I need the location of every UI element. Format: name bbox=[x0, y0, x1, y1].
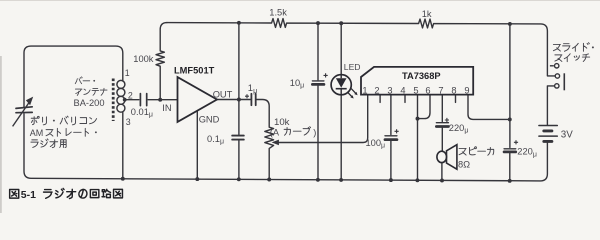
wire antenna loop top bbox=[24, 46, 123, 107]
svg-text:8: 8 bbox=[451, 86, 456, 96]
label speaker bbox=[459, 148, 466, 155]
wire pot wiper to pin1 bbox=[279, 95, 368, 143]
svg-text:4: 4 bbox=[400, 86, 405, 96]
op-amp LMF501T triangle bbox=[178, 77, 218, 122]
label poly varicon bbox=[31, 116, 39, 124]
wire coil bottom to rail bbox=[122, 112, 124, 179]
slide switch bbox=[550, 64, 564, 91]
svg-text:IN: IN bbox=[162, 103, 171, 113]
wire OUT bbox=[217, 99, 250, 101]
label ba- (bar) bbox=[75, 77, 82, 84]
wire pin8 stub bbox=[455, 95, 457, 103]
capacitor 100u plates bbox=[385, 135, 397, 137]
capacitor 10u plates bbox=[312, 80, 324, 82]
wire 100u line bbox=[390, 95, 392, 180]
svg-text:5-1: 5-1 bbox=[21, 189, 36, 201]
wire LED line bbox=[340, 23, 342, 180]
wire pin2 stub bbox=[379, 95, 381, 103]
wire pin6 curve bbox=[418, 95, 431, 119]
coil tap numbers bbox=[125, 68, 133, 127]
wire pin7 through 220u to speaker bbox=[441, 95, 443, 181]
wire loop left lower + ground rail + riser to battery bbox=[24, 114, 547, 181]
IC TA7368P box bbox=[361, 67, 473, 95]
svg-text:GND: GND bbox=[199, 114, 220, 124]
svg-text:1.5k: 1.5k bbox=[269, 7, 287, 17]
varicon arrow bbox=[13, 102, 30, 127]
label slide switch bbox=[553, 44, 560, 51]
svg-text:): ) bbox=[313, 128, 316, 138]
label AM straight bbox=[46, 130, 53, 136]
speaker cone bbox=[447, 145, 457, 170]
nakaguro dots bbox=[53, 46, 594, 133]
inductor bar-antenna coil bbox=[117, 80, 125, 112]
ferrite core dashed bbox=[112, 79, 115, 122]
pot wiper arrowhead bbox=[272, 140, 279, 146]
varicon plates bbox=[16, 107, 32, 113]
wire IN bbox=[148, 99, 177, 101]
svg-text:100k: 100k bbox=[133, 54, 154, 64]
svg-text:3: 3 bbox=[126, 117, 131, 127]
svg-text:9: 9 bbox=[464, 86, 469, 96]
battery 3V plates bbox=[539, 126, 557, 137]
wire pin4 stub bbox=[404, 95, 406, 103]
svg-text:2: 2 bbox=[128, 91, 133, 101]
caption kanji bold bbox=[10, 188, 123, 198]
svg-text:5: 5 bbox=[413, 86, 418, 96]
svg-text:LED: LED bbox=[344, 62, 361, 72]
capacitor 1u plates bbox=[251, 94, 255, 105]
svg-text:8Ω: 8Ω bbox=[458, 159, 470, 169]
svg-text:1: 1 bbox=[362, 86, 367, 96]
wire GND drop bbox=[196, 111, 198, 179]
plus signs bbox=[245, 73, 518, 144]
label radio-yo bbox=[31, 140, 38, 148]
svg-text:BA-200: BA-200 bbox=[74, 98, 105, 108]
wire pin5 bbox=[417, 95, 419, 181]
wire pin9 to Vcc bbox=[468, 95, 510, 120]
wire 1u to pot and pot zigzag to rail bbox=[257, 100, 274, 180]
labels: values bbox=[74, 7, 537, 169]
svg-text:7: 7 bbox=[438, 86, 443, 96]
svg-text:AM: AM bbox=[30, 128, 44, 138]
LED D1 bbox=[331, 75, 351, 95]
IC pin numbers bbox=[362, 86, 469, 96]
svg-text:(A: (A bbox=[270, 128, 280, 138]
svg-text:2: 2 bbox=[374, 86, 379, 96]
svg-text:10k: 10k bbox=[274, 117, 290, 128]
capacitor 220u no1 plates bbox=[436, 122, 448, 124]
svg-text:6: 6 bbox=[425, 86, 430, 96]
wire top rail with 1.5k and 1k zigzags bbox=[167, 19, 555, 76]
svg-text:3V: 3V bbox=[561, 129, 573, 140]
speaker coil ellipse bbox=[437, 151, 447, 162]
label A-curve kana bbox=[284, 128, 290, 136]
svg-text:1: 1 bbox=[125, 68, 130, 78]
wire 10u line bbox=[317, 23, 319, 180]
svg-text:OUT: OUT bbox=[213, 90, 233, 100]
svg-text:LMF501T: LMF501T bbox=[174, 65, 215, 75]
scan edge shading bbox=[0, 56, 2, 213]
capacitor 0.1u plates bbox=[232, 136, 244, 140]
wire switch to battery bbox=[547, 86, 554, 125]
svg-text:1k: 1k bbox=[422, 9, 432, 19]
wire Vcc line bbox=[509, 24, 511, 181]
wire 100k branch with resistor zigzag bbox=[156, 23, 167, 100]
kana strings bbox=[31, 43, 590, 156]
wire coil tap2 bbox=[125, 99, 139, 101]
wire OUT-node vertical bbox=[238, 23, 240, 180]
svg-text:3: 3 bbox=[387, 86, 392, 96]
capacitor 0.01u plates bbox=[140, 94, 146, 106]
svg-text:TA7368P: TA7368P bbox=[402, 71, 441, 81]
capacitor 220u no2 plates bbox=[504, 148, 516, 150]
